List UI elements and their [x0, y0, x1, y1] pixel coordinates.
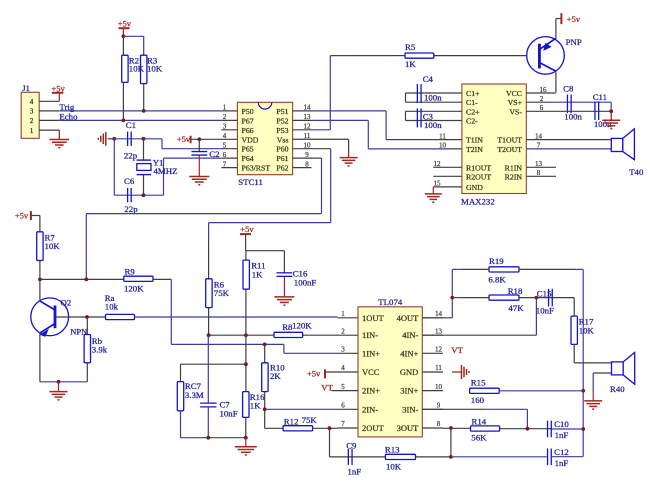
svg-text:15: 15 [434, 180, 442, 188]
svg-text:120K: 120K [292, 321, 312, 331]
svg-text:1IN+: 1IN+ [362, 348, 380, 358]
svg-text:10: 10 [435, 383, 443, 391]
svg-text:TL074: TL074 [378, 297, 403, 307]
svg-text:4: 4 [341, 364, 345, 372]
svg-text:C2: C2 [209, 149, 219, 159]
svg-text:6: 6 [223, 151, 227, 159]
svg-text:1IN-: 1IN- [362, 330, 378, 340]
svg-text:P52: P52 [276, 116, 288, 125]
svg-text:10K: 10K [579, 326, 595, 336]
svg-text:5: 5 [341, 383, 345, 391]
svg-text:120K: 120K [124, 284, 144, 294]
svg-text:P50: P50 [242, 107, 254, 116]
svg-text:100nF: 100nF [294, 278, 317, 288]
svg-text:10K: 10K [386, 461, 402, 471]
svg-text:13: 13 [435, 327, 443, 335]
svg-text:4MHZ: 4MHZ [154, 166, 178, 176]
svg-text:8: 8 [437, 420, 441, 428]
svg-text:11: 11 [304, 132, 311, 140]
svg-text:56K: 56K [471, 433, 487, 443]
svg-text:3OUT: 3OUT [397, 423, 420, 433]
svg-text:2: 2 [341, 327, 345, 335]
svg-text:4: 4 [223, 132, 227, 140]
svg-text:R15: R15 [471, 377, 486, 387]
svg-text:6: 6 [341, 402, 345, 410]
svg-text:R14: R14 [472, 416, 487, 426]
svg-text:+5v: +5v [240, 224, 254, 234]
svg-text:14: 14 [304, 104, 312, 112]
svg-text:GND: GND [400, 367, 418, 377]
svg-text:T1OUT: T1OUT [497, 136, 522, 145]
svg-text:VCC: VCC [506, 89, 522, 98]
svg-text:160: 160 [471, 395, 485, 405]
svg-text:11: 11 [435, 364, 442, 372]
svg-text:C15: C15 [537, 288, 552, 298]
svg-text:75K: 75K [214, 288, 230, 298]
svg-text:2: 2 [223, 113, 227, 121]
svg-text:2IN-: 2IN- [362, 404, 378, 414]
svg-text:4: 4 [30, 98, 34, 106]
svg-text:C12: C12 [554, 447, 569, 457]
svg-text:12: 12 [435, 346, 443, 354]
svg-text:3: 3 [223, 123, 227, 131]
svg-text:P66: P66 [242, 126, 254, 135]
svg-text:T2OUT: T2OUT [497, 145, 522, 154]
svg-text:+5v: +5v [15, 210, 29, 220]
svg-text:2: 2 [30, 117, 34, 125]
svg-text:4IN+: 4IN+ [400, 348, 418, 358]
svg-text:MAX232: MAX232 [461, 197, 495, 207]
svg-text:R1OUT: R1OUT [466, 163, 491, 172]
svg-text:P67: P67 [242, 116, 254, 125]
svg-text:10: 10 [304, 142, 312, 150]
svg-text:P53: P53 [276, 126, 288, 135]
svg-text:C1: C1 [126, 120, 136, 130]
svg-text:Q2: Q2 [61, 298, 72, 308]
svg-text:+5v: +5v [118, 19, 132, 29]
svg-text:R40: R40 [610, 384, 625, 394]
svg-text:2IN+: 2IN+ [362, 386, 380, 396]
svg-text:2K: 2K [270, 371, 281, 381]
svg-text:1nF: 1nF [348, 467, 362, 477]
svg-text:6.8K: 6.8K [488, 275, 506, 285]
svg-text:5: 5 [223, 142, 227, 150]
svg-text:7: 7 [341, 420, 345, 428]
svg-text:9: 9 [437, 402, 441, 410]
svg-text:75K: 75K [302, 415, 318, 425]
svg-text:12: 12 [434, 160, 442, 168]
svg-text:10nF: 10nF [220, 409, 238, 419]
svg-text:C4: C4 [423, 74, 434, 84]
svg-text:P64: P64 [242, 154, 254, 163]
svg-text:VT: VT [321, 383, 333, 393]
svg-text:100n: 100n [564, 112, 582, 122]
svg-text:VDD: VDD [242, 135, 259, 144]
svg-text:4IN-: 4IN- [402, 330, 418, 340]
svg-text:R5: R5 [405, 42, 416, 52]
svg-text:14: 14 [435, 310, 443, 318]
svg-text:T2IN: T2IN [466, 145, 483, 154]
svg-text:PNP: PNP [566, 37, 582, 47]
svg-text:R13: R13 [385, 444, 400, 454]
svg-text:1: 1 [30, 127, 34, 135]
svg-text:10nF: 10nF [536, 306, 554, 316]
svg-text:R12: R12 [284, 417, 299, 427]
svg-text:1K: 1K [252, 270, 263, 280]
svg-text:22p: 22p [124, 151, 138, 161]
svg-text:1: 1 [341, 310, 345, 318]
svg-text:3IN+: 3IN+ [400, 386, 418, 396]
svg-text:13: 13 [535, 160, 543, 168]
svg-text:C10: C10 [554, 419, 569, 429]
svg-text:8: 8 [305, 160, 309, 168]
svg-text:J1: J1 [22, 83, 30, 93]
svg-text:C1+: C1+ [466, 89, 480, 98]
svg-text:T1IN: T1IN [466, 136, 483, 145]
svg-text:1K: 1K [250, 401, 261, 411]
svg-text:VCC: VCC [362, 367, 380, 377]
svg-text:VS-: VS- [509, 107, 522, 116]
svg-text:C8: C8 [563, 83, 574, 93]
svg-text:1nF: 1nF [555, 458, 569, 468]
svg-text:P60: P60 [276, 145, 288, 154]
svg-text:P51: P51 [276, 107, 288, 116]
svg-text:10K: 10K [129, 64, 145, 74]
svg-text:R1IN: R1IN [505, 163, 523, 172]
svg-text:C2+: C2+ [466, 107, 480, 116]
svg-text:10k: 10k [105, 302, 119, 312]
svg-text:3IN-: 3IN- [402, 404, 418, 414]
svg-text:4OUT: 4OUT [397, 313, 420, 323]
svg-text:2OUT: 2OUT [362, 423, 385, 433]
svg-text:STC11: STC11 [238, 177, 263, 187]
svg-text:+5v: +5v [567, 14, 581, 24]
svg-text:1K: 1K [405, 59, 416, 69]
svg-text:+5v: +5v [177, 134, 191, 144]
svg-text:14: 14 [535, 132, 543, 140]
svg-text:VT: VT [451, 345, 463, 355]
svg-text:11: 11 [439, 132, 446, 140]
svg-text:3: 3 [30, 108, 34, 116]
svg-text:6: 6 [540, 104, 544, 112]
svg-text:3: 3 [341, 346, 345, 354]
svg-text:C1-: C1- [466, 98, 478, 107]
svg-text:7: 7 [223, 160, 227, 168]
svg-text:+5v: +5v [52, 83, 66, 93]
svg-text:1OUT: 1OUT [362, 313, 385, 323]
svg-text:16: 16 [540, 86, 548, 94]
svg-text:R2IN: R2IN [505, 172, 523, 181]
svg-text:Echo: Echo [59, 111, 78, 121]
svg-text:1: 1 [223, 104, 227, 112]
svg-text:R9: R9 [125, 267, 136, 277]
svg-text:VS+: VS+ [508, 98, 523, 107]
svg-text:10: 10 [439, 142, 447, 150]
svg-text:9: 9 [305, 151, 309, 159]
svg-text:22p: 22p [124, 204, 138, 214]
svg-text:100n: 100n [424, 120, 442, 130]
svg-text:C6: C6 [124, 176, 135, 186]
svg-text:P65: P65 [242, 145, 254, 154]
svg-text:100n: 100n [424, 93, 442, 103]
svg-text:3.9k: 3.9k [92, 345, 108, 355]
svg-text:47K: 47K [508, 303, 524, 313]
svg-text:3.3M: 3.3M [185, 390, 204, 400]
svg-text:8: 8 [537, 169, 541, 177]
svg-text:T40: T40 [629, 167, 644, 177]
svg-text:C9: C9 [346, 440, 357, 450]
svg-text:R18: R18 [508, 286, 523, 296]
svg-text:R19: R19 [489, 256, 504, 266]
svg-text:Vss: Vss [277, 135, 289, 144]
svg-text:+5v: +5v [307, 369, 321, 379]
svg-text:10K: 10K [147, 64, 163, 74]
svg-text:C2-: C2- [466, 117, 478, 126]
svg-text:2: 2 [540, 95, 544, 103]
svg-text:P61: P61 [276, 154, 288, 163]
svg-text:P62: P62 [276, 164, 288, 173]
svg-text:C11: C11 [593, 92, 607, 102]
svg-text:13: 13 [304, 113, 312, 121]
svg-text:P63/RST: P63/RST [242, 164, 271, 173]
svg-text:7: 7 [537, 142, 541, 150]
svg-text:12: 12 [304, 123, 312, 131]
svg-text:GND: GND [466, 183, 483, 192]
svg-text:10K: 10K [45, 241, 61, 251]
svg-text:R2OUT: R2OUT [466, 172, 491, 181]
svg-text:1nF: 1nF [555, 430, 569, 440]
